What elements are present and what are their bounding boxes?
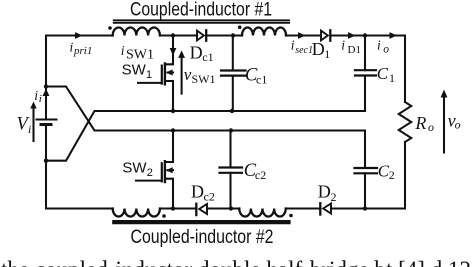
svg-text:i: i [34, 88, 38, 103]
svg-text:c2: c2 [204, 189, 215, 203]
svg-text:i: i [291, 37, 295, 52]
svg-text:i: i [121, 43, 125, 58]
svg-text:D: D [191, 181, 204, 201]
svg-text:o: o [428, 120, 434, 134]
svg-text:i: i [70, 39, 74, 54]
svg-text:i: i [377, 38, 381, 53]
svg-text:c1: c1 [202, 50, 213, 64]
svg-text:D: D [312, 39, 325, 59]
svg-text:Coupled-inductor #1: Coupled-inductor #1 [130, 0, 272, 21]
svg-text:sec1: sec1 [295, 45, 313, 56]
svg-text:c2: c2 [255, 168, 266, 182]
svg-text:1: 1 [389, 71, 395, 85]
svg-text:1: 1 [324, 47, 330, 61]
svg-text:2: 2 [331, 190, 337, 204]
svg-text:v: v [184, 65, 192, 84]
svg-text:SW1: SW1 [126, 48, 154, 63]
svg-text:D: D [318, 181, 331, 201]
svg-text:C: C [377, 64, 389, 83]
svg-text:o: o [383, 43, 389, 55]
svg-text:i: i [28, 122, 31, 136]
svg-text:i: i [341, 38, 345, 53]
svg-text:2: 2 [389, 168, 395, 182]
svg-text:pri1: pri1 [73, 45, 92, 57]
svg-text:1: 1 [146, 69, 152, 81]
svg-text:SW: SW [122, 159, 147, 176]
svg-text:R: R [414, 113, 426, 133]
svg-text:SW: SW [122, 61, 147, 78]
svg-text:Coupled-inductor #2: Coupled-inductor #2 [131, 227, 274, 248]
svg-text:D: D [190, 43, 203, 63]
svg-text:2: 2 [147, 167, 153, 179]
svg-text:o: o [455, 118, 461, 132]
svg-text:SW1: SW1 [192, 72, 216, 86]
svg-text:c1: c1 [256, 72, 267, 86]
svg-text:i: i [39, 93, 42, 105]
svg-text:D1: D1 [348, 44, 361, 56]
svg-text:the coupled-inductor double ha: the coupled-inductor double half-bridge … [1, 258, 471, 267]
